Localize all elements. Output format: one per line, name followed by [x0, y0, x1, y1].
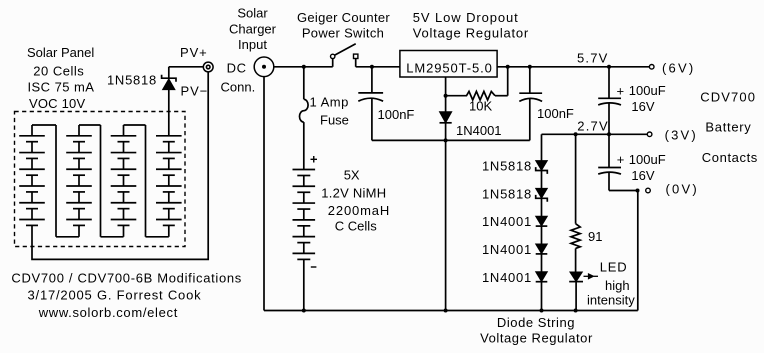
diode D1 1N5818 (schottky, panel blocking): [162, 67, 176, 136]
DC conn label: [221, 61, 256, 95]
svg-text:10K: 10K: [469, 99, 492, 114]
wire ground bus to rail: [445, 140, 447, 310]
node 0V: [636, 189, 640, 193]
svg-text:Power Switch: Power Switch: [302, 26, 384, 41]
svg-text:5X: 5X: [344, 168, 360, 183]
svg-text:PV+: PV+: [180, 45, 208, 60]
node 2.7V A: [574, 132, 578, 136]
solar column top links: [32, 124, 146, 126]
svg-text:100uF: 100uF: [629, 152, 666, 167]
svg-text:Voltage Regulator: Voltage Regulator: [413, 26, 529, 41]
svg-text:Contacts: Contacts: [702, 150, 758, 165]
LED label: [587, 260, 635, 308]
solar cell column 4: [156, 136, 182, 226]
fuse label: [310, 95, 349, 128]
diode string caption: [480, 315, 593, 346]
svg-text:91: 91: [588, 229, 602, 244]
svg-text:Geiger Counter: Geiger Counter: [297, 10, 390, 25]
svg-text:1N4001: 1N4001: [482, 270, 532, 285]
svg-text:5V Low Dropout: 5V Low Dropout: [413, 10, 519, 25]
wire diode string to rail: [541, 282, 543, 311]
svg-text:100nF: 100nF: [537, 106, 574, 121]
diode D5 1N4001: [536, 216, 548, 244]
diode D7 1N4001: [536, 272, 548, 282]
diode D4 1N5818: [536, 188, 548, 216]
node rail regulator: [444, 309, 448, 313]
geiger counter power switch label: [297, 10, 390, 41]
node 2.7V B: [607, 132, 611, 136]
svg-text:Charger: Charger: [229, 22, 277, 37]
LED DS1: [569, 272, 583, 311]
wire 2.7V to diode string: [541, 134, 543, 160]
svg-text:intensity: intensity: [587, 293, 635, 308]
node input cap junction: [370, 65, 374, 69]
svg-text:Input: Input: [238, 37, 267, 52]
battery plus sign: [311, 156, 318, 163]
solar panel dashed enclosure: [15, 112, 186, 247]
svg-text:Solar Panel: Solar Panel: [27, 45, 94, 60]
svg-text:+: +: [617, 84, 625, 99]
wire regulator ground leg: [445, 77, 447, 96]
wire 0V to ground rail: [637, 191, 639, 311]
battery minus sign: [311, 266, 317, 268]
svg-text:(0V): (0V): [666, 182, 699, 197]
solar cell column 1: [19, 125, 45, 225]
node rail LED: [574, 309, 578, 313]
svg-text:(6V): (6V): [662, 60, 695, 75]
node out A: [506, 65, 510, 69]
svg-text:16V: 16V: [631, 168, 654, 183]
node out B: [528, 65, 532, 69]
diode D2 1N4001 (ground lift): [440, 96, 452, 141]
solar panel label text: [27, 45, 94, 111]
svg-text:C Cells: C Cells: [335, 219, 377, 234]
wire jack sleeve to ground rail: [263, 77, 265, 311]
node ground bus: [444, 138, 448, 142]
svg-text:DC: DC: [227, 61, 247, 76]
svg-text:100uF: 100uF: [629, 83, 666, 98]
terminal (3V): [647, 132, 652, 137]
svg-text:CDV700: CDV700: [700, 89, 756, 104]
svg-text:www.solorb.com/elect: www.solorb.com/elect: [38, 305, 178, 320]
svg-text:2.7V: 2.7V: [577, 119, 609, 134]
PV- return wire from panel to connector: [32, 72, 208, 259]
capacitor C1 100nF: [358, 67, 383, 141]
wire jack to switch: [274, 66, 333, 68]
svg-text:1N5818: 1N5818: [482, 159, 532, 174]
wire regulator ground bus: [372, 139, 530, 141]
svg-text:5.7V: 5.7V: [577, 50, 609, 65]
node jack/battery junction: [302, 65, 306, 69]
battery B1 5x NiMH: [293, 170, 316, 311]
LED arrow: [584, 274, 599, 279]
capacitor C2 100nF (output): [519, 67, 542, 141]
solar cell column 3: [111, 125, 137, 225]
svg-text:Voltage Regulator: Voltage Regulator: [480, 331, 593, 346]
node out C: [607, 65, 611, 69]
capacitor C4 100uF 16V: [598, 134, 638, 190]
solar column serpentine connectors: [56, 125, 169, 237]
terminal (6V): [649, 65, 654, 70]
ground rail wire: [264, 310, 638, 312]
svg-text:100nF: 100nF: [378, 107, 415, 122]
regulator U1 LM2950T-5.0 box: [400, 51, 497, 78]
svg-text:PV−: PV−: [181, 84, 209, 99]
node rail battery: [302, 309, 306, 313]
solar plug connector tip: [203, 62, 213, 72]
diode D3 1N5818: [536, 161, 548, 189]
svg-text:LED: LED: [600, 260, 628, 275]
resistor R1 10K: [446, 67, 508, 100]
DC connector jack J1: [254, 57, 274, 77]
node reg ground: [444, 94, 448, 98]
svg-text:Solar: Solar: [237, 6, 268, 21]
svg-text:ISC 75 mA: ISC 75 mA: [28, 80, 95, 95]
svg-text:1 Amp: 1 Amp: [310, 95, 349, 110]
svg-text:Fuse: Fuse: [320, 113, 349, 128]
battery label: [321, 168, 390, 234]
wire PV+ to plug: [169, 66, 204, 68]
capacitor C3 100uF 16V: [598, 67, 621, 135]
svg-text:+: +: [617, 152, 625, 167]
svg-text:1N5818: 1N5818: [482, 186, 532, 201]
C4 label: [617, 152, 666, 183]
title block text: [11, 271, 242, 321]
svg-text:Diode String: Diode String: [497, 315, 575, 330]
svg-text:2200maH: 2200maH: [328, 203, 390, 218]
svg-text:1N5818: 1N5818: [107, 73, 157, 88]
wire regulator output 5.7V rail: [497, 66, 649, 68]
resistor R2 91: [571, 134, 580, 272]
diode D6 1N4001: [536, 244, 548, 272]
2.7V rail wire: [542, 133, 648, 135]
svg-text:1N4001: 1N4001: [456, 123, 502, 138]
svg-text:1N4001: 1N4001: [482, 214, 532, 229]
solar cell column 2: [66, 125, 92, 225]
svg-text:high: high: [605, 278, 630, 293]
switch SW1: [331, 44, 358, 67]
solar charger input label: [229, 6, 277, 53]
C3 label: [617, 83, 666, 114]
fuse F1 1 Amp: [299, 67, 308, 170]
svg-text:CDV700 / CDV700-6B Modificatio: CDV700 / CDV700-6B Modifications: [11, 271, 242, 286]
CDV700 battery contacts label: [700, 89, 758, 165]
terminal (0V): [646, 188, 651, 193]
node rail diode string: [540, 309, 544, 313]
svg-text:(3V): (3V): [665, 128, 698, 143]
svg-text:16V: 16V: [631, 99, 654, 114]
svg-text:1.2V NiMH: 1.2V NiMH: [321, 186, 386, 201]
svg-text:VOC 10V: VOC 10V: [29, 96, 85, 111]
svg-text:20 Cells: 20 Cells: [33, 64, 84, 79]
5V regulator heading: [413, 10, 529, 41]
wire switch to regulator: [356, 66, 400, 68]
svg-text:3/17/2005 G. Forrest Cook: 3/17/2005 G. Forrest Cook: [28, 288, 202, 303]
svg-text:LM2950T-5.0: LM2950T-5.0: [406, 60, 493, 75]
svg-text:Conn.: Conn.: [221, 80, 256, 95]
svg-text:Battery: Battery: [705, 120, 751, 135]
svg-text:1N4001: 1N4001: [482, 242, 532, 257]
